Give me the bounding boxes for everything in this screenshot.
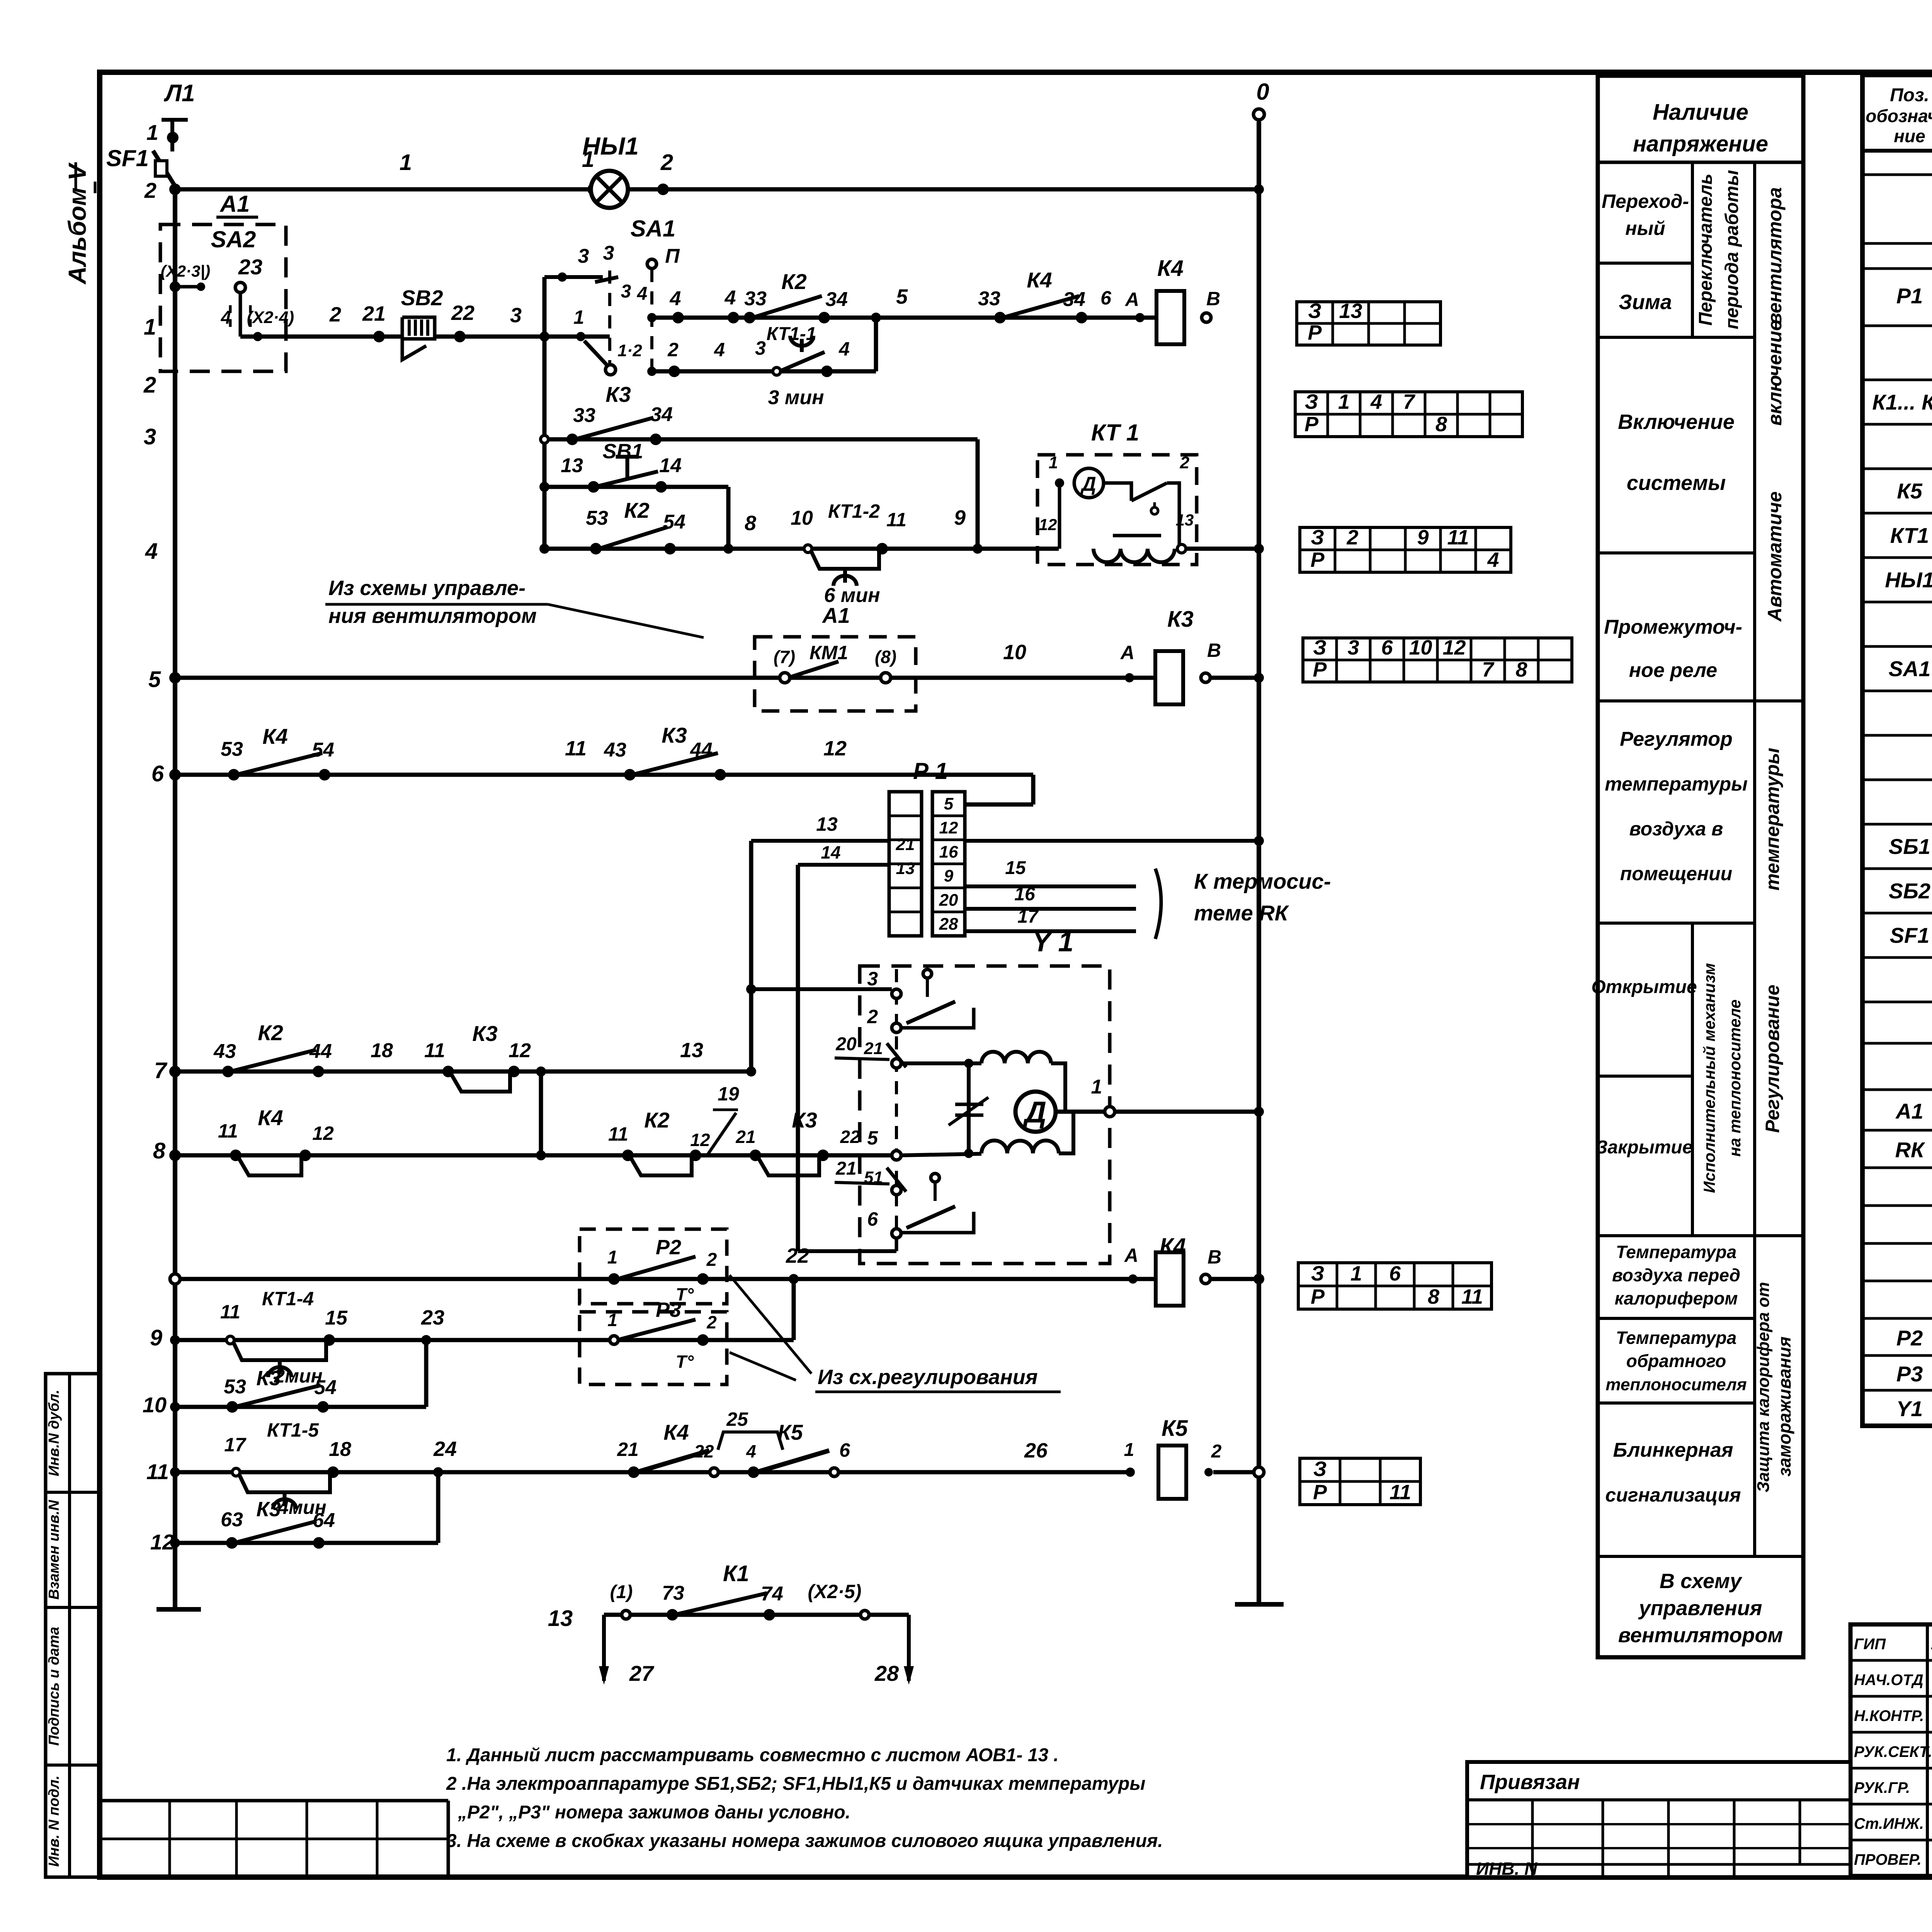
svg-text:64: 64 xyxy=(313,1509,335,1532)
svg-text:В схему: В схему xyxy=(1660,1570,1743,1593)
svg-text:К4: К4 xyxy=(663,1420,689,1444)
svg-text:Н.КОНТР.: Н.КОНТР. xyxy=(1854,1708,1924,1725)
wire rung6 to P1 pin5 xyxy=(965,775,1033,804)
svg-text:КМ1: КМ1 xyxy=(810,642,848,663)
Y1 motor lower winding xyxy=(901,1112,1073,1155)
svg-text:Взамен инв.N: Взамен инв.N xyxy=(46,1500,62,1600)
svg-text:21: 21 xyxy=(896,835,915,854)
svg-text:14: 14 xyxy=(659,454,682,477)
svg-text:К2: К2 xyxy=(624,498,650,522)
svg-text:9: 9 xyxy=(150,1325,162,1350)
contact K2 (rung4) xyxy=(586,498,685,554)
svg-text:SВ2: SВ2 xyxy=(401,286,443,310)
signature table xyxy=(1850,1624,1932,1876)
svg-text:25: 25 xyxy=(726,1408,748,1430)
lamp HL1 xyxy=(582,132,639,208)
svg-text:17: 17 xyxy=(1017,906,1039,927)
svg-text:15: 15 xyxy=(1005,858,1026,878)
svg-text:16: 16 xyxy=(939,842,958,861)
rung number 10 xyxy=(143,1393,167,1417)
svg-text:ный: ный xyxy=(1625,218,1665,239)
svg-text:6: 6 xyxy=(839,1439,850,1461)
svg-text:Y1: Y1 xyxy=(1896,1396,1923,1421)
parts row Y1 xyxy=(1896,1396,1932,1422)
svg-text:Р3: Р3 xyxy=(1896,1362,1923,1386)
svg-text:13: 13 xyxy=(1176,511,1194,529)
svg-text:22: 22 xyxy=(451,301,474,325)
svg-text:РУК.ГР.: РУК.ГР. xyxy=(1854,1779,1910,1796)
svg-text:4: 4 xyxy=(670,287,681,310)
rung number 5 xyxy=(148,667,161,692)
svg-text:4: 4 xyxy=(1487,548,1499,571)
svg-text:12: 12 xyxy=(823,737,847,760)
svg-text:Р: Р xyxy=(1311,1285,1325,1308)
svg-text:26: 26 xyxy=(1024,1439,1048,1462)
svg-text:К2: К2 xyxy=(781,269,807,294)
svg-text:калорифером: калорифером xyxy=(1615,1288,1738,1308)
svg-text:3. На схеме в скобках указа: 3. На схеме в скобках указаны номера заж… xyxy=(446,1831,1163,1851)
Y1 left riser xyxy=(964,1063,973,1158)
svg-text:А: А xyxy=(1124,289,1139,310)
label wire 3 xyxy=(510,304,522,327)
parts row КТ1 xyxy=(1890,523,1932,548)
svg-text:А1: А1 xyxy=(821,603,850,628)
svg-text:8: 8 xyxy=(1428,1285,1439,1308)
Y1 motor D xyxy=(1015,1092,1056,1132)
wire 14 to P1 xyxy=(798,842,889,865)
svg-text:К5: К5 xyxy=(777,1420,803,1444)
svg-text:11: 11 xyxy=(220,1301,240,1323)
Y1 pole xyxy=(895,969,898,1260)
svg-text:11: 11 xyxy=(146,1459,169,1484)
svg-text:1: 1 xyxy=(1350,1262,1362,1285)
svg-text:6: 6 xyxy=(867,1208,878,1230)
wire rung 5 xyxy=(169,672,1156,684)
Y1 wire 6 xyxy=(895,1238,898,1251)
contact P3 xyxy=(607,1298,717,1372)
svg-text:20: 20 xyxy=(939,891,958,910)
svg-text:2: 2 xyxy=(1346,526,1358,549)
svg-text:К4: К4 xyxy=(262,724,288,748)
svg-text:Р: Р xyxy=(1310,548,1325,571)
svg-text:18: 18 xyxy=(329,1438,351,1461)
svg-text:27: 27 xyxy=(629,1661,655,1685)
svg-text:обратного: обратного xyxy=(1626,1351,1726,1371)
terminal X2-3 stub xyxy=(161,262,210,292)
wire rung 9 xyxy=(170,1335,703,1345)
cell temperature return xyxy=(1605,1328,1747,1394)
rung number 12 xyxy=(150,1530,174,1554)
riser 1944 (wire 13) xyxy=(746,841,756,1071)
wire rung 12 xyxy=(170,1472,438,1548)
svg-text:5: 5 xyxy=(148,667,161,692)
svg-text:вентилятора: вентилятора xyxy=(1764,187,1786,324)
svg-text:SБ2: SБ2 xyxy=(1889,879,1930,903)
contact K4 (rung11) xyxy=(617,1420,718,1478)
row 13 wire xyxy=(548,1606,909,1631)
svg-text:74: 74 xyxy=(761,1583,783,1605)
svg-text:4: 4 xyxy=(838,338,850,360)
cell promezhutochnoe xyxy=(1604,616,1742,682)
svg-text:включение: включение xyxy=(1764,320,1786,426)
switch SA1 pole A xyxy=(584,270,647,375)
rung number 6 xyxy=(151,761,164,786)
label wire 2 xyxy=(329,303,341,326)
relay coil K5 xyxy=(1158,1416,1188,1499)
svg-text:К2: К2 xyxy=(258,1020,283,1045)
svg-text:43: 43 xyxy=(604,739,626,761)
svg-text:Блинкерная: Блинкерная xyxy=(1613,1439,1733,1461)
node 21 xyxy=(362,302,386,342)
svg-text:помещении: помещении xyxy=(1620,863,1732,884)
svg-text:3 мин: 3 мин xyxy=(768,386,824,409)
svg-text:11: 11 xyxy=(1389,1481,1411,1504)
svg-text:20: 20 xyxy=(835,1034,857,1054)
svg-text:К3: К3 xyxy=(256,1367,281,1390)
svg-text:SА1: SА1 xyxy=(631,216,676,241)
wire lamp rung xyxy=(169,184,1264,195)
parts table grid xyxy=(1862,75,1932,1426)
svg-text:14: 14 xyxy=(821,842,840,862)
svg-text:2: 2 xyxy=(1180,453,1190,472)
svg-text:П: П xyxy=(665,245,680,267)
riser 2530 xyxy=(976,439,980,549)
svg-text:28: 28 xyxy=(874,1661,899,1685)
svg-text:12: 12 xyxy=(509,1039,531,1062)
wire rung 10 xyxy=(170,1340,426,1412)
wire rung P2 xyxy=(170,1274,1156,1284)
svg-text:10: 10 xyxy=(143,1393,167,1417)
svg-text:2: 2 xyxy=(143,372,156,398)
node 2 (lamp) xyxy=(657,150,673,195)
Y1 terminal 21 xyxy=(864,1039,901,1068)
svg-text:температуры: температуры xyxy=(1605,773,1748,795)
svg-text:4: 4 xyxy=(724,287,736,309)
node 4a xyxy=(670,287,684,323)
svg-text:11: 11 xyxy=(608,1123,628,1145)
svg-text:Y 1: Y 1 xyxy=(1032,927,1074,957)
svg-text:воздуха в: воздуха в xyxy=(1629,818,1723,840)
svg-text:(Х2·5): (Х2·5) xyxy=(808,1581,862,1602)
time contact KT1-2 xyxy=(804,500,888,607)
svg-text:Р 1: Р 1 xyxy=(913,758,948,784)
block A1 with switch SA2 xyxy=(160,191,286,371)
contact table KT1 xyxy=(1300,526,1511,572)
svg-text:Д: Д xyxy=(1022,1095,1046,1129)
right bus end bar xyxy=(1235,1602,1284,1607)
svg-text:1·2: 1·2 xyxy=(617,341,642,360)
svg-text:1: 1 xyxy=(1049,453,1058,472)
svg-text:13: 13 xyxy=(896,859,915,878)
svg-text:А1: А1 xyxy=(219,191,250,217)
svg-text:НЫ1: НЫ1 xyxy=(582,132,639,160)
parts row К1... К4 xyxy=(1872,390,1932,415)
node 4b xyxy=(724,287,739,323)
album label xyxy=(63,162,95,285)
contact K4 (rung6) xyxy=(221,724,334,781)
svg-text:К3: К3 xyxy=(256,1498,281,1521)
svg-text:33: 33 xyxy=(573,404,595,427)
svg-text:НЫ1: НЫ1 xyxy=(1885,568,1932,592)
parts row НЫ1 xyxy=(1885,568,1932,593)
svg-text:1: 1 xyxy=(146,120,158,145)
svg-text:А: А xyxy=(1124,1245,1138,1266)
svg-text:(1): (1) xyxy=(610,1582,633,1602)
node 15 xyxy=(325,1307,348,1329)
rotated actuator xyxy=(1700,963,1744,1193)
wire rung to K4 coil xyxy=(647,313,1156,322)
Y1 wire 21 to motor xyxy=(901,1059,981,1068)
svg-text:3: 3 xyxy=(578,245,589,267)
svg-text:RК: RК xyxy=(1895,1138,1925,1162)
node 23 junction xyxy=(421,1306,444,1345)
KT1 internal motor xyxy=(1049,453,1190,549)
svg-text:Температура: Температура xyxy=(1616,1328,1736,1348)
Y1 motor upper winding xyxy=(981,1052,1065,1112)
svg-text:3: 3 xyxy=(510,304,522,327)
svg-text:Р2: Р2 xyxy=(656,1236,681,1259)
svg-text:18: 18 xyxy=(371,1039,393,1062)
rotated protection from freezing xyxy=(1754,1282,1794,1493)
svg-text:К3: К3 xyxy=(1167,607,1194,632)
svg-text:КТ1-4: КТ1-4 xyxy=(262,1288,314,1310)
relay coil K4 (lower) xyxy=(1156,1234,1186,1306)
svg-text:13: 13 xyxy=(816,813,838,835)
svg-text:6: 6 xyxy=(151,761,164,786)
svg-text:КТ1-1: КТ1-1 xyxy=(767,324,816,344)
rung number 7 xyxy=(154,1058,168,1083)
svg-text:13: 13 xyxy=(1339,299,1362,323)
svg-text:53: 53 xyxy=(224,1376,246,1398)
wire rung 7 xyxy=(169,1066,756,1077)
svg-text:КТ 1: КТ 1 xyxy=(1091,420,1139,446)
parts row Р3 xyxy=(1896,1362,1932,1387)
svg-text:15: 15 xyxy=(325,1307,348,1329)
svg-text:ние: ние xyxy=(1894,126,1925,146)
svg-text:10: 10 xyxy=(791,507,813,529)
svg-text:З: З xyxy=(1311,526,1324,549)
svg-text:Открытие: Открытие xyxy=(1591,977,1697,997)
svg-text:10: 10 xyxy=(1409,636,1432,659)
svg-text:К2: К2 xyxy=(644,1108,670,1132)
svg-text:12: 12 xyxy=(1039,515,1057,534)
parts row RК xyxy=(1895,1138,1932,1163)
svg-text:2: 2 xyxy=(144,178,156,202)
svg-text:21: 21 xyxy=(362,302,386,325)
rung number 8 xyxy=(153,1138,166,1163)
svg-text:4: 4 xyxy=(145,539,158,564)
svg-text:К3: К3 xyxy=(792,1108,817,1132)
terminal B (K4b) xyxy=(1201,1246,1221,1284)
svg-text:Р: Р xyxy=(1304,413,1319,436)
svg-text:2: 2 xyxy=(706,1312,717,1332)
svg-text:11: 11 xyxy=(424,1039,445,1062)
svg-text:54: 54 xyxy=(312,739,334,761)
node A (K3) xyxy=(1120,642,1134,682)
svg-text:12: 12 xyxy=(1442,636,1466,659)
breaker SF1 xyxy=(106,145,175,202)
node 11 (rung4) xyxy=(886,509,906,531)
svg-text:Поз.: Поз. xyxy=(1890,85,1929,105)
notes xyxy=(446,1745,1163,1851)
svg-text:12: 12 xyxy=(690,1130,710,1150)
cell zakrytie xyxy=(1596,1137,1693,1158)
rotated regulation of temperature xyxy=(1762,748,1783,1133)
svg-text:Инв. N подл.: Инв. N подл. xyxy=(46,1776,62,1867)
node 22 junction xyxy=(786,1244,809,1284)
label 19 crossing xyxy=(707,1083,739,1155)
svg-text:6: 6 xyxy=(1389,1262,1401,1285)
node 22 xyxy=(451,301,474,342)
Y1 terminal 5 xyxy=(867,1127,901,1160)
svg-text:Альбом V: Альбом V xyxy=(63,162,91,285)
svg-text:9: 9 xyxy=(1417,526,1429,549)
svg-text:1: 1 xyxy=(573,306,584,328)
svg-text:13: 13 xyxy=(680,1039,703,1062)
svg-text:22: 22 xyxy=(694,1441,714,1461)
svg-text:21: 21 xyxy=(735,1127,755,1147)
wire rung 8 xyxy=(169,1150,892,1161)
parts table header xyxy=(1866,85,1932,146)
Y1 terminal 2 xyxy=(867,1006,901,1032)
svg-text:21: 21 xyxy=(617,1439,639,1460)
svg-text:6: 6 xyxy=(1100,287,1112,309)
svg-text:4: 4 xyxy=(746,1441,756,1461)
svg-text:5: 5 xyxy=(944,794,954,813)
wire rung 3 xyxy=(541,435,978,443)
svg-text:Защита калорифера от: Защита калорифера от xyxy=(1754,1282,1773,1493)
svg-text:34: 34 xyxy=(825,288,848,311)
riser 1400 (rung7-rung8) xyxy=(536,1066,546,1155)
mechanical link 25 xyxy=(718,1408,783,1450)
svg-text:Р3: Р3 xyxy=(656,1298,681,1321)
timer block KT1 xyxy=(1037,420,1197,565)
cell blinker xyxy=(1605,1439,1741,1506)
time contact KT1-5 xyxy=(224,1419,339,1518)
contact P2 xyxy=(607,1236,717,1304)
svg-text:ное реле: ное реле xyxy=(1629,659,1717,682)
svg-text:К3: К3 xyxy=(605,382,631,406)
privyazan box xyxy=(1467,1762,1850,1879)
arrow 28 xyxy=(874,1615,914,1685)
Y1 terminal 3 xyxy=(867,968,901,998)
svg-text:Ст.ИНЖ.: Ст.ИНЖ. xyxy=(1854,1815,1924,1832)
svg-text:11: 11 xyxy=(1447,526,1469,549)
svg-text:3: 3 xyxy=(144,424,156,449)
thermostat P3 box xyxy=(580,1312,727,1384)
svg-text:(Х2·4): (Х2·4) xyxy=(247,308,294,327)
label 33 K4 xyxy=(978,287,1000,310)
svg-text:(7): (7) xyxy=(774,647,795,667)
node 18 xyxy=(329,1438,351,1461)
svg-text:44: 44 xyxy=(309,1040,332,1063)
svg-text:К4: К4 xyxy=(1027,268,1052,292)
svg-text:З: З xyxy=(1305,390,1318,413)
svg-text:1: 1 xyxy=(607,1247,618,1268)
svg-text:6: 6 xyxy=(1381,636,1393,659)
svg-text:Л1: Л1 xyxy=(163,80,195,107)
node 2 (rung2) xyxy=(667,339,680,377)
svg-text:В: В xyxy=(1207,639,1221,661)
svg-text:5: 5 xyxy=(867,1127,878,1149)
svg-text:SА2: SА2 xyxy=(211,226,256,252)
svg-text:1: 1 xyxy=(607,1310,617,1330)
svg-text:на теплоносителе: на теплоносителе xyxy=(1726,999,1744,1156)
wire K4b to bus xyxy=(1210,1274,1264,1284)
svg-text:13: 13 xyxy=(548,1606,573,1631)
svg-text:периода работы: периода работы xyxy=(1722,170,1742,329)
svg-text:Подпись и дата: Подпись и дата xyxy=(46,1627,62,1746)
rung number 11 xyxy=(146,1459,169,1484)
switch SA1 label xyxy=(631,216,676,241)
node 1 before SA1 xyxy=(573,306,585,341)
node 4 (rung2) xyxy=(838,338,850,360)
stop button SB2 xyxy=(401,286,443,360)
label 10 (rung5) xyxy=(1003,641,1026,664)
cell to fan circuit xyxy=(1618,1570,1783,1647)
svg-text:7: 7 xyxy=(1482,658,1495,681)
svg-text:КТ1-2: КТ1-2 xyxy=(828,500,880,522)
svg-text:температуры: температуры xyxy=(1762,748,1783,891)
svg-text:ГИП: ГИП xyxy=(1854,1636,1886,1653)
svg-text:3: 3 xyxy=(867,968,878,990)
svg-text:43: 43 xyxy=(213,1040,236,1063)
svg-text:SБ1: SБ1 xyxy=(1889,834,1930,859)
svg-text:2: 2 xyxy=(1211,1441,1222,1462)
arrow 27 xyxy=(599,1615,655,1685)
svg-text:системы: системы xyxy=(1627,471,1726,495)
left bus wire xyxy=(173,185,177,1609)
svg-text:В: В xyxy=(1207,1246,1221,1268)
label 9 xyxy=(954,506,966,529)
svg-text:(8): (8) xyxy=(875,647,896,667)
contact KM1 xyxy=(774,642,896,683)
svg-text:5: 5 xyxy=(896,285,908,308)
svg-text:обозначе-: обозначе- xyxy=(1866,106,1932,126)
svg-text:21: 21 xyxy=(864,1039,883,1058)
svg-text:З: З xyxy=(1313,636,1327,659)
terminal 2 (K5) xyxy=(1204,1441,1222,1476)
svg-text:1: 1 xyxy=(144,315,156,340)
svg-text:Температура: Температура xyxy=(1616,1242,1736,1262)
svg-text:4: 4 xyxy=(221,308,231,328)
svg-text:К5: К5 xyxy=(1162,1416,1188,1441)
contact K3 (rung6) xyxy=(604,723,726,781)
svg-text:51: 51 xyxy=(864,1168,883,1187)
svg-text:4: 4 xyxy=(637,284,648,304)
svg-text:Регулятор: Регулятор xyxy=(1620,728,1733,750)
svg-text:3: 3 xyxy=(755,337,766,359)
rung number 4 xyxy=(145,539,158,564)
svg-text:21: 21 xyxy=(835,1158,856,1179)
svg-text:10: 10 xyxy=(1003,641,1026,664)
node 24 junction xyxy=(433,1437,457,1477)
svg-text:Р1: Р1 xyxy=(1896,284,1923,308)
svg-text:К термосис-: К термосис- xyxy=(1194,869,1331,893)
contact K2 nc (rung8) xyxy=(608,1108,710,1175)
Y1 cam contact 21b xyxy=(835,1158,906,1192)
label 11 (rung6) xyxy=(565,737,587,760)
regulator P1 xyxy=(889,758,965,936)
Y1 lower limit switch xyxy=(901,1173,974,1233)
cell regulyator xyxy=(1605,728,1748,884)
svg-text:ния вентилятором: ния вентилятором xyxy=(328,604,537,628)
svg-text:8: 8 xyxy=(1435,413,1447,436)
svg-text:К4: К4 xyxy=(1157,256,1184,281)
svg-text:SА1: SА1 xyxy=(1889,656,1931,681)
svg-text:А1: А1 xyxy=(1895,1099,1923,1123)
svg-text:Переключатель: Переключатель xyxy=(1696,173,1716,325)
